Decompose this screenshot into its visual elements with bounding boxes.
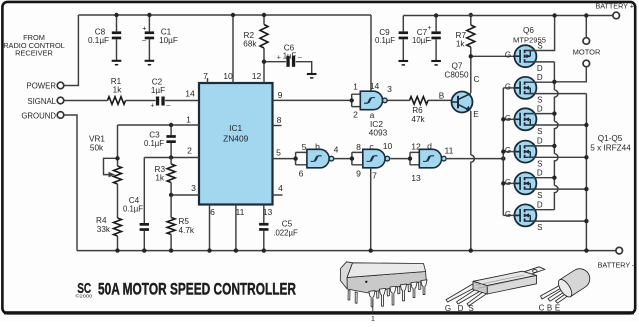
svg-text:G: G [505,146,511,155]
nand gate IC2a [350,81,410,120]
svg-text:7: 7 [372,171,377,181]
IC1 pin 9 [273,90,352,100]
Q2 gate stub [503,118,514,120]
svg-text:S: S [537,96,542,105]
svg-text:S: S [468,304,473,313]
svg-text:Q6: Q6 [523,26,534,35]
svg-text:ZN409: ZN409 [223,134,248,144]
source bus Q1-Q5 [584,94,588,253]
IC1 pin 5 label [273,148,296,159]
svg-text:C: C [539,304,545,313]
svg-text:10: 10 [223,71,233,81]
IC1 pin 8 stub [273,115,282,126]
IC1 pin 10 [223,13,235,83]
Q3 drain wire [527,145,554,147]
IC2 label [369,119,388,137]
IC1 pin 4 stub [273,183,284,195]
ground C6 [307,74,317,78]
svg-text:1k: 1k [456,40,466,49]
svg-text:+: + [150,103,154,110]
svg-text:+: + [142,24,146,33]
svg-text:9: 9 [356,169,361,179]
ground C7 [431,61,441,65]
ground C9 [399,61,409,65]
svg-text:R6: R6 [412,106,423,115]
nand gate IC2b [293,142,352,179]
svg-text:B: B [439,92,445,101]
capacitor C3 [144,123,176,160]
svg-text:8: 8 [277,115,282,125]
Q5 drain wire [527,209,554,211]
svg-text:G: G [505,178,511,187]
svg-text:IC1: IC1 [229,123,242,133]
svg-text:D: D [537,104,543,113]
svg-text:b: b [315,142,320,152]
svg-text:5 x IRFZ44: 5 x IRFZ44 [590,144,631,153]
svg-text:6: 6 [299,169,304,179]
svg-text:47k: 47k [411,115,425,124]
svg-text:.022µF: .022µF [273,229,298,238]
capacitor C1 [142,13,178,61]
svg-text:12: 12 [252,71,262,81]
svg-text:5: 5 [276,148,281,158]
svg-text:–: – [166,103,170,110]
gate bus Q1-Q5 [501,88,505,215]
svg-text:14: 14 [185,89,195,99]
svg-text:11: 11 [445,146,454,156]
svg-text:a: a [370,110,375,120]
svg-text:G: G [445,304,451,313]
svg-text:D: D [537,73,543,82]
IC1 pin 1 [118,115,200,126]
wire bottom ground rail [77,250,616,252]
drain bus Q1-Q5 [552,62,558,210]
wire Q7 emitter to rail [469,111,475,253]
svg-text:E: E [473,110,479,119]
svg-text:–: – [428,37,432,44]
capacitor C5 [259,220,298,253]
ground C1 [145,61,155,65]
Q2 drain wire [527,113,554,115]
svg-text:13: 13 [411,173,421,183]
svg-text:VR1: VR1 [89,135,105,144]
svg-text:C8050: C8050 [444,71,469,80]
svg-text:G: G [505,51,511,60]
svg-text:10µF: 10µF [159,36,178,45]
svg-text:2: 2 [353,110,358,120]
svg-text:D: D [537,168,543,177]
svg-text:10: 10 [383,141,393,151]
IC1 pin 6 [207,205,215,253]
svg-text:0.1µF: 0.1µF [88,36,109,45]
svg-text:C5: C5 [282,220,293,229]
svg-text:MOTOR: MOTOR [573,47,601,56]
Q2 source wire [527,124,586,126]
svg-text:6: 6 [210,207,215,217]
Q3 source wire [527,156,586,158]
IC1 pin 2 [144,146,199,158]
title 50A MOTOR SPEED CONTROLLER [98,279,296,298]
svg-text:1k: 1k [113,86,123,95]
svg-text:1µF: 1µF [151,86,165,95]
svg-text:4: 4 [278,183,283,193]
terminal MOTOR upper [583,13,590,44]
Q1 drain wire [527,81,554,83]
svg-text:BATTERY +: BATTERY + [595,2,634,11]
svg-text:14: 14 [370,81,380,91]
svg-text:R5: R5 [179,217,190,226]
terminal GROUND [21,111,63,120]
svg-text:©2000: ©2000 [76,293,93,300]
transistor Q6 MTP2955 labels [513,26,546,45]
potentiometer VR1 [89,125,121,218]
Q6 drain wire [527,62,554,73]
svg-text:5: 5 [302,142,307,152]
svg-text:d: d [427,141,432,151]
svg-text:B: B [547,304,552,313]
svg-text:+: + [277,55,281,62]
svg-text:S: S [537,127,542,136]
terminal MOTOR lower [554,60,589,82]
transistor Q6 MTP2955 [505,45,537,67]
ground C8 [112,61,122,65]
resistor R5 [167,195,195,253]
label BATTERY + [595,2,634,11]
capacitor C9 [375,16,408,62]
capacitor C6 [262,44,312,74]
svg-text:12: 12 [411,142,421,152]
svg-text:68k: 68k [243,40,257,49]
svg-text:9: 9 [278,90,283,100]
svg-text:POWER: POWER [27,82,57,91]
svg-text:1k: 1k [155,174,165,183]
terminal SIGNAL [27,97,63,106]
label Q1-Q5 [590,134,631,153]
package drawing TO-92 [539,265,594,313]
svg-text:8: 8 [356,142,361,152]
input label FROM RADIO CONTROL RECEIVER [3,33,65,58]
svg-text:4.7k: 4.7k [179,226,195,235]
svg-text:11: 11 [236,207,245,217]
resistor R2 [243,13,268,83]
wire IC2 pin14 riser [370,15,372,91]
svg-text:SIGNAL: SIGNAL [27,97,56,106]
svg-text:R4: R4 [96,216,107,225]
IC2 pin 7 riser [369,168,373,253]
resistor R1 [64,77,126,104]
Q6 source wire [527,13,556,50]
transistor Q7 C8050 [439,62,480,120]
svg-text:0.1µF: 0.1µF [375,36,395,45]
svg-text:Q7: Q7 [452,62,463,71]
Q4 source wire [527,188,586,190]
resistor R6 [410,97,452,124]
wire right battery rail [403,15,613,17]
nand gate IC2d [408,141,506,183]
svg-text:50k: 50k [90,144,104,153]
package drawing TO-220 [445,267,545,313]
capacitor C7 [412,13,441,61]
svg-text:D: D [537,64,543,73]
capacitor C2 [126,78,200,110]
IC1 pin 13 [263,205,273,223]
IC1 pin 11 [234,205,245,253]
svg-text:S: S [537,191,542,200]
svg-text:4093: 4093 [369,127,388,137]
svg-text:S: S [537,41,542,50]
svg-text:BATTERY –: BATTERY – [598,260,636,269]
svg-text:C: C [474,75,480,84]
svg-text:S: S [537,223,542,232]
Q1 gate stub [503,87,514,89]
Q1 source wire [527,93,586,95]
resistor R3 [155,158,176,198]
terminal POWER [27,82,64,91]
package drawing DIP-14 IC [340,262,427,323]
svg-text:D: D [537,137,543,146]
svg-text:E: E [555,304,560,313]
svg-text:4: 4 [334,145,339,155]
svg-text:3: 3 [191,183,196,193]
IC1 pin 14 label [185,89,195,99]
transistor Q5 IRFZ44 [505,200,543,232]
svg-text:GROUND: GROUND [21,111,56,120]
wire GROUND to bottom rail [64,115,77,251]
wire left supply rail [78,14,371,16]
resistor R7 [456,13,475,93]
svg-text:c: c [369,142,374,152]
svg-text:2: 2 [187,146,192,156]
svg-text:Q1-Q5: Q1-Q5 [598,134,623,143]
svg-text:0.1µF: 0.1µF [144,139,164,148]
IC1 pin 3 [171,183,199,195]
wire POWER to +rail [64,15,79,86]
svg-text:D: D [537,200,543,209]
transistor Q1 IRFZ44 [505,73,543,105]
Q5 source wire [527,220,586,222]
capacitor C8 [88,13,121,61]
svg-text:0.1µF: 0.1µF [123,205,143,214]
wire Q6 gate [469,54,515,58]
Q4 gate stub [503,182,514,184]
IC IC1 ZN409 body [199,83,273,205]
transistor Q3 IRFZ44 [505,137,543,169]
svg-text:+: + [428,25,432,32]
transistor Q4 IRFZ44 [505,168,543,200]
svg-text:1: 1 [371,316,375,322]
capacitor C4 [123,158,149,253]
svg-text:G: G [505,210,511,219]
svg-text:S: S [537,159,542,168]
IC1 pin 7 stub [203,71,208,83]
transistor Q2 IRFZ44 [505,104,543,136]
svg-text:3: 3 [387,84,392,94]
svg-text:33k: 33k [97,225,111,234]
IC1 pin 12 label [252,71,262,81]
logo SC [76,280,93,300]
terminal BATTERY + [613,12,620,19]
label MOTOR [573,47,601,56]
svg-text:D: D [458,304,464,313]
svg-text:G: G [505,114,511,123]
svg-text:G: G [505,82,511,91]
terminal BATTERY - [598,247,636,269]
nand gate IC2c [350,141,410,181]
Q3 gate stub [503,151,514,153]
svg-text:1: 1 [353,82,358,92]
resistor R4 [96,216,121,253]
svg-text:50A MOTOR SPEED CONTROLLER: 50A MOTOR SPEED CONTROLLER [98,279,296,298]
svg-text:–: – [298,55,302,62]
Q4 drain wire [527,177,554,179]
svg-text:1: 1 [186,115,191,125]
Q5 gate stub [503,214,514,216]
svg-text:RECEIVER: RECEIVER [15,49,53,58]
